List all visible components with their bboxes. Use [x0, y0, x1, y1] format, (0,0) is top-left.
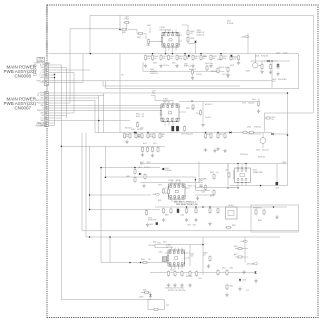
svg-text:D806: D806 — [275, 188, 279, 190]
svg-text:470p: 470p — [223, 58, 227, 60]
svg-text:R620: R620 — [272, 117, 276, 119]
svg-text:R613: R613 — [136, 116, 140, 118]
svg-text:2.2k: 2.2k — [147, 58, 150, 60]
svg-text:RLS4148: RLS4148 — [261, 56, 268, 58]
svg-text:D601: D601 — [184, 64, 188, 66]
svg-text:R607: R607 — [172, 63, 176, 65]
svg-text:D603: D603 — [247, 127, 251, 129]
svg-text:R802: R802 — [126, 176, 130, 178]
svg-text:C 12: C 12 — [246, 290, 249, 292]
svg-text:R604: R604 — [190, 31, 194, 33]
svg-text:0.022: 0.022 — [283, 53, 287, 55]
svg-text:1k: 1k — [187, 58, 189, 60]
svg-text:C628: C628 — [223, 56, 227, 58]
svg-text:RL801: RL801 — [228, 205, 233, 207]
svg-text:100µ/16V: 100µ/16V — [248, 103, 254, 105]
svg-text:C808: C808 — [200, 180, 204, 182]
svg-text:C603: C603 — [150, 69, 154, 71]
svg-text:Z601: Z601 — [147, 25, 151, 27]
svg-text:4.7k: 4.7k — [233, 58, 236, 60]
svg-text:C825 470p: C825 470p — [148, 245, 155, 247]
svg-text:R628 10k: R628 10k — [258, 157, 265, 159]
svg-text:D602: D602 — [230, 65, 234, 67]
svg-text:C620: C620 — [148, 218, 152, 220]
svg-text:R602: R602 — [137, 37, 141, 39]
svg-text:C609 0.1: C609 0.1 — [196, 74, 202, 76]
svg-text:R816: R816 — [232, 225, 236, 227]
svg-text:POWER SW: POWER SW — [253, 207, 262, 209]
svg-text:680p: 680p — [149, 136, 153, 138]
svg-text:R830: R830 — [258, 220, 262, 222]
svg-text:R812: R812 — [222, 267, 226, 269]
svg-text:C819: C819 — [198, 278, 202, 280]
svg-text:R630: R630 — [282, 162, 286, 164]
svg-text:D801: D801 — [165, 168, 169, 170]
svg-text:R625: R625 — [213, 56, 217, 58]
svg-text:10k: 10k — [142, 114, 145, 116]
svg-text:47k: 47k — [190, 33, 193, 35]
svg-text:D810 RD-11E C818 470p: D810 RD-11E C818 470p — [168, 290, 186, 292]
svg-text:SELECTED: SELECTED — [148, 220, 157, 222]
svg-text:D812: D812 — [230, 267, 234, 269]
svg-text:DTC114: DTC114 — [144, 167, 150, 169]
svg-text:R609 4.7k: R609 4.7k — [219, 67, 226, 69]
svg-text:D602: D602 — [227, 21, 231, 23]
svg-text:10k: 10k — [213, 58, 216, 60]
svg-text:R604: R604 — [179, 56, 183, 58]
svg-text:R625: R625 — [207, 134, 211, 136]
svg-text:C810: C810 — [225, 170, 229, 172]
svg-text:CONNECT: CONNECT — [38, 60, 45, 62]
svg-text:1k: 1k — [192, 108, 194, 110]
svg-text:016: 016 — [191, 256, 194, 258]
svg-text:+5V 12A: +5V 12A — [246, 263, 254, 266]
svg-text:C826: C826 — [181, 215, 185, 217]
svg-text:C822: C822 — [202, 192, 206, 194]
svg-text:R840: R840 — [143, 290, 147, 292]
svg-text:C611: C611 — [153, 143, 157, 145]
svg-text:680p: 680p — [179, 58, 183, 60]
svg-text:C641: C641 — [170, 56, 174, 58]
svg-text:R813 1k: R813 1k — [186, 276, 192, 278]
svg-text:R608: R608 — [203, 56, 207, 58]
svg-text:CONNECTOR: CONNECTOR — [36, 124, 47, 126]
svg-text:R813: R813 — [230, 286, 234, 288]
svg-text:R826: R826 — [165, 215, 169, 217]
svg-text:C811: C811 — [163, 242, 167, 244]
svg-text:SE135N: SE135N — [163, 101, 170, 103]
svg-text:CN606: CN606 — [38, 58, 43, 60]
svg-text:IC602: IC602 — [131, 129, 135, 131]
svg-text:R619: R619 — [252, 99, 256, 101]
svg-text:T20: T20 — [140, 164, 143, 166]
svg-text:R601: R601 — [195, 56, 199, 58]
svg-text:C604 470p: C604 470p — [150, 73, 158, 75]
svg-text:R605: R605 — [190, 38, 194, 40]
svg-text:ZD801: ZD801 — [139, 296, 144, 298]
svg-text:1k: 1k — [258, 99, 260, 101]
svg-text:5VL: 5VL — [121, 74, 124, 76]
svg-text:1µ: 1µ — [154, 58, 156, 60]
svg-text:C608: C608 — [154, 56, 158, 58]
svg-text:100: 100 — [195, 58, 198, 60]
svg-text:Q602: Q602 — [246, 71, 250, 73]
svg-text:R627: R627 — [186, 108, 190, 110]
svg-text:R603: R603 — [153, 63, 157, 65]
svg-text:TRANS,SMR: TRANS,SMR — [253, 171, 264, 174]
svg-text:R831: R831 — [141, 259, 145, 261]
svg-text:10k: 10k — [272, 119, 275, 121]
svg-text:Q601: Q601 — [256, 150, 260, 152]
svg-text:C614 470p: C614 470p — [240, 154, 248, 156]
svg-text:470p: 470p — [200, 182, 203, 184]
svg-text:R626: R626 — [220, 134, 224, 136]
svg-text:C612: C612 — [276, 53, 280, 55]
svg-text:6.2V: 6.2V — [203, 255, 206, 257]
svg-text:RLS4148: RLS4148 — [227, 23, 233, 25]
svg-text:C830: C830 — [159, 251, 163, 253]
svg-text:RLS4148: RLS4148 — [254, 127, 261, 129]
svg-text:R817: R817 — [234, 254, 238, 256]
svg-text:C821: C821 — [158, 185, 162, 187]
svg-text:L601: L601 — [125, 17, 129, 19]
svg-text:C607: C607 — [152, 91, 156, 93]
svg-text:1: 1 — [122, 34, 123, 36]
svg-text:10k: 10k — [161, 136, 164, 138]
svg-text:15k: 15k — [170, 58, 173, 60]
svg-text:C602 1µ: C602 1µ — [163, 65, 169, 67]
svg-text:C812: C812 — [157, 242, 161, 244]
svg-text:C824: C824 — [187, 225, 191, 227]
svg-text:R601: R601 — [147, 56, 151, 58]
svg-text:100µ: 100µ — [152, 93, 156, 95]
svg-text:R618 47k: R618 47k — [205, 104, 212, 106]
svg-text:D820: D820 — [150, 224, 154, 226]
svg-text:C816 100µ C817 47µ R815: C816 100µ C817 47µ R815 — [165, 288, 184, 290]
svg-text:B801: B801 — [140, 162, 144, 164]
svg-text:100µ/25V: 100µ/25V — [150, 71, 158, 73]
svg-text:4.7k: 4.7k — [163, 58, 166, 60]
svg-text:470p: 470p — [193, 225, 197, 227]
svg-text:R611: R611 — [143, 143, 147, 145]
svg-text:10k: 10k — [194, 186, 197, 188]
svg-text:2SC2712: 2SC2712 — [262, 150, 269, 152]
svg-text:C615 1000µ/10V: C615 1000µ/10V — [181, 134, 194, 136]
svg-text:R824: R824 — [188, 186, 192, 188]
svg-text:C616 1µ: C616 1µ — [205, 117, 211, 119]
svg-text:C613: C613 — [196, 113, 200, 115]
svg-text:100: 100 — [148, 259, 151, 261]
svg-text:D813: D813 — [243, 280, 247, 282]
svg-text:RD6.2ESB2: RD6.2ESB2 — [278, 79, 287, 81]
svg-text:IC802: IC802 — [169, 180, 174, 182]
svg-text:C606: C606 — [217, 59, 221, 61]
svg-text:C605 100p: C605 100p — [205, 63, 213, 65]
svg-text:CN0007: CN0007 — [14, 106, 31, 111]
svg-text:C619: C619 — [242, 103, 246, 105]
svg-text:SEN 1: SEN 1 — [147, 162, 152, 164]
svg-text:D604: D604 — [255, 56, 259, 58]
svg-text:D822 SELECTED(R) 1/1W: D822 SELECTED(R) 1/1W — [176, 204, 198, 206]
svg-text:C814: C814 — [191, 254, 195, 256]
svg-text:C601: C601 — [146, 45, 150, 47]
svg-text:IC801-5: IC801-5 — [170, 270, 176, 272]
svg-text:R809: R809 — [210, 196, 214, 198]
svg-text:SE140N: SE140N — [166, 247, 173, 249]
svg-text:CN0008: CN0008 — [14, 74, 31, 79]
svg-text:ZD810: ZD810 — [203, 253, 208, 255]
svg-text:CRT: CRT — [166, 305, 169, 307]
svg-text:1µ: 1µ — [203, 58, 205, 60]
svg-text:ERA91-02: ERA91-02 — [197, 31, 205, 34]
svg-text:Q802: Q802 — [138, 167, 142, 169]
svg-text:FB601: FB601 — [124, 19, 129, 21]
svg-text:C601: C601 — [163, 56, 167, 58]
svg-text:R808: R808 — [210, 172, 214, 174]
svg-text:C617 470p: C617 470p — [222, 74, 230, 76]
svg-text:1.5k: 1.5k — [216, 172, 219, 174]
svg-text:R611: R611 — [161, 134, 165, 136]
svg-text:R816: R816 — [234, 246, 238, 248]
svg-text:SE135N: SE135N — [137, 129, 143, 131]
svg-text:15k: 15k — [126, 136, 129, 138]
svg-text:RLS4148: RLS4148 — [165, 170, 171, 172]
svg-text:10k: 10k — [142, 116, 145, 118]
svg-text:R820: R820 — [158, 200, 162, 202]
